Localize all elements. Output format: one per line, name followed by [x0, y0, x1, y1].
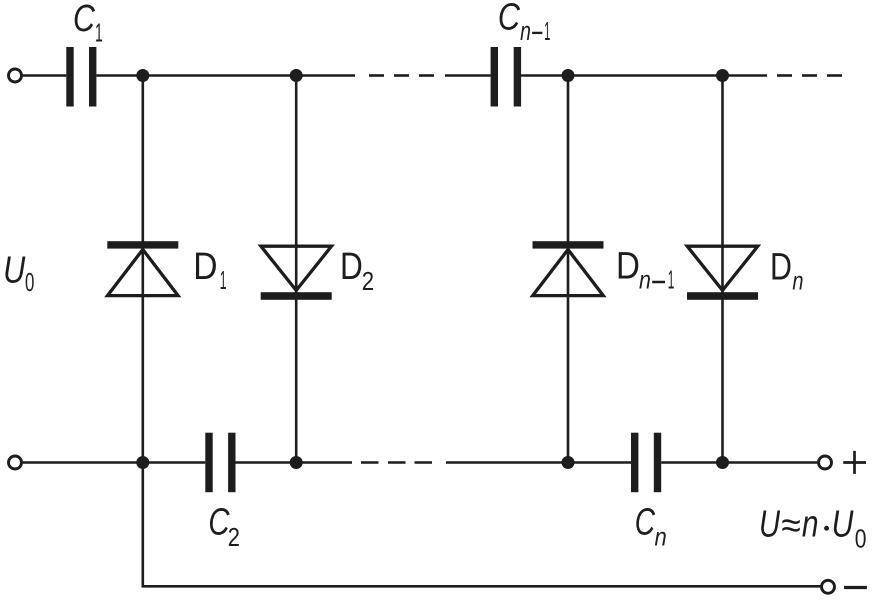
label C2: [208, 501, 240, 553]
label Cn: [635, 501, 667, 552]
label Dn-1: [616, 244, 674, 295]
label D2: [340, 245, 374, 296]
label Dn: [770, 246, 804, 295]
diode Dn (triangle down, cathode bar bottom): [687, 246, 758, 300]
input terminal (bottom left): [9, 456, 22, 469]
label U0 (input voltage): [3, 249, 34, 297]
wire: bottom rail terminal to C2: [23, 461, 206, 464]
wire: vertical branch through D2: [295, 76, 298, 463]
capacitor Cn: [631, 433, 661, 493]
label C1: [73, 0, 103, 48]
diode Dn-1 (cathode bar top, triangle up): [533, 241, 604, 295]
output terminal (+): [819, 456, 832, 469]
capacitor C1: [66, 47, 96, 107]
svg-text:C: C: [635, 501, 656, 543]
label U = n * U0 (output voltage): [759, 503, 866, 553]
svg-text:C: C: [73, 0, 95, 40]
svg-text:≈: ≈: [781, 504, 800, 546]
svg-text:D: D: [770, 246, 792, 288]
label +: [843, 451, 866, 474]
wire: bottom rail C2 to dashed break: [236, 461, 353, 464]
node: top rail / Dn-1: [562, 69, 575, 82]
node: top rail / D1: [136, 69, 149, 82]
wire (dashed, bottom middle): [361, 461, 379, 464]
svg-text:n: n: [655, 523, 667, 552]
svg-text:D: D: [616, 244, 640, 287]
wire: vertical branch through Dn-1: [567, 76, 570, 463]
wire: top rail C1 to dashed break: [96, 74, 355, 77]
wire (dashed, top right): [777, 74, 792, 77]
wire: vertical branch through D1: [142, 76, 145, 463]
svg-text:C: C: [498, 0, 521, 38]
svg-text:1: 1: [544, 18, 550, 47]
wire: top rail Cn-1 to right dashed break: [521, 74, 767, 77]
diode D1 (cathode bar top, triangle up): [107, 241, 178, 295]
svg-text:1: 1: [668, 267, 675, 295]
svg-text:U: U: [3, 249, 26, 291]
svg-text:1: 1: [220, 267, 227, 295]
label D1: [193, 245, 226, 295]
wire: return leg down from bottom rail: [142, 463, 145, 586]
wire: bottom return rail: [142, 585, 821, 588]
svg-text:2: 2: [362, 268, 374, 297]
node: top rail / D2: [290, 69, 303, 82]
output terminal (-): [822, 580, 835, 593]
wire (dashed, top middle): [369, 74, 384, 77]
node: top rail / Dn: [716, 69, 729, 82]
diode D2 (triangle down, cathode bar bottom): [261, 246, 332, 300]
node: bottom rail / D1: [136, 456, 149, 469]
svg-text:0: 0: [25, 268, 34, 298]
wire: input terminal to C1: [23, 74, 67, 77]
label -: [844, 586, 867, 589]
svg-text:U: U: [759, 503, 780, 546]
wire: bottom rail Cn to output terminal: [661, 461, 817, 464]
capacitor Cn-1: [491, 47, 522, 107]
svg-text:n: n: [802, 503, 819, 545]
capacitor C2: [205, 433, 235, 493]
svg-text:0: 0: [855, 524, 867, 552]
label Cn-1: [498, 0, 551, 46]
node: bottom rail / Dn-1: [562, 456, 575, 469]
svg-text:n: n: [639, 266, 651, 294]
svg-text:2: 2: [228, 524, 240, 553]
svg-text:n: n: [792, 266, 803, 295]
wire: vertical branch through Dn: [721, 76, 724, 463]
wire: top rail into Cn-1: [445, 74, 491, 77]
svg-text:1: 1: [95, 19, 103, 48]
input terminal (top left): [9, 69, 22, 82]
svg-text:n: n: [520, 16, 531, 45]
svg-text:U: U: [832, 503, 854, 545]
svg-text:D: D: [340, 245, 363, 287]
svg-text:C: C: [208, 501, 230, 544]
node: bottom rail / D2: [290, 456, 303, 469]
svg-text:D: D: [193, 245, 217, 287]
node: bottom rail / Dn: [716, 456, 729, 469]
wire: bottom rail to Cn: [446, 461, 631, 464]
